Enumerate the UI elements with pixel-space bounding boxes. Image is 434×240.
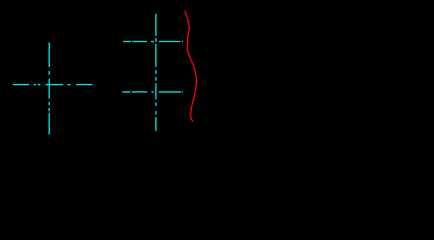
wire: middle vertical dot 1: [155, 70, 157, 74]
wire: middle vertical dash top: [155, 14, 157, 37]
node E: lower center mark horizontal centerline: [122, 91, 183, 93]
wire: lower horizontal dot right end: [182, 91, 183, 93]
wire: upper horizontal short dash left of center: [151, 41, 154, 43]
wire: left horizontal dot 2: [38, 84, 41, 86]
wire: middle vertical long dash through lower crossing: [155, 83, 157, 99]
wire: left horizontal dash 2: [76, 84, 92, 86]
node A: left center mark horizontal centerline: [13, 84, 93, 86]
wire: left vertical long dash through center: [48, 79, 50, 99]
wire: left vertical dot 1: [48, 71, 50, 75]
wire: left horizontal dot 3: [67, 84, 70, 86]
wire: lower horizontal dash 1: [122, 91, 130, 93]
wire: left horizontal long dash through center: [45, 84, 63, 86]
node C: middle vertical centerline connecting the two center marks: [155, 14, 157, 131]
wire: middle vertical dot 4: [155, 111, 157, 114]
wire: middle vertical dash bottom: [155, 117, 157, 131]
wire: left vertical dot 2: [48, 102, 50, 105]
wire: middle vertical dot 2: [155, 77, 157, 81]
wire: left horizontal dash 1: [13, 84, 29, 86]
wire: left vertical dash bottom: [48, 113, 50, 134]
wire: upper horizontal dot right end: [182, 41, 183, 43]
wire: lower horizontal dash 2: [132, 91, 147, 93]
wire: left vertical dot 3: [48, 108, 50, 111]
wire: middle vertical short dash at upper crossing: [155, 38, 157, 42]
wire: upper horizontal long dash right of center: [159, 41, 180, 43]
wire: lower horizontal short dash left of center: [152, 91, 154, 93]
wire: middle vertical dot 3: [155, 103, 157, 106]
wire: left vertical dash top: [48, 42, 50, 67]
break line (red wavy spline): [185, 11, 197, 121]
wire: middle vertical long dash: [155, 44, 157, 67]
wire: lower horizontal long dash right of center: [159, 91, 181, 93]
wire: left horizontal dot 1: [34, 84, 36, 86]
wire: upper horizontal dash 2: [132, 41, 147, 43]
wire: upper horizontal dash 1: [123, 41, 131, 43]
node D: upper center mark horizontal centerline: [123, 41, 183, 43]
node B: left center mark vertical centerline: [48, 42, 50, 134]
